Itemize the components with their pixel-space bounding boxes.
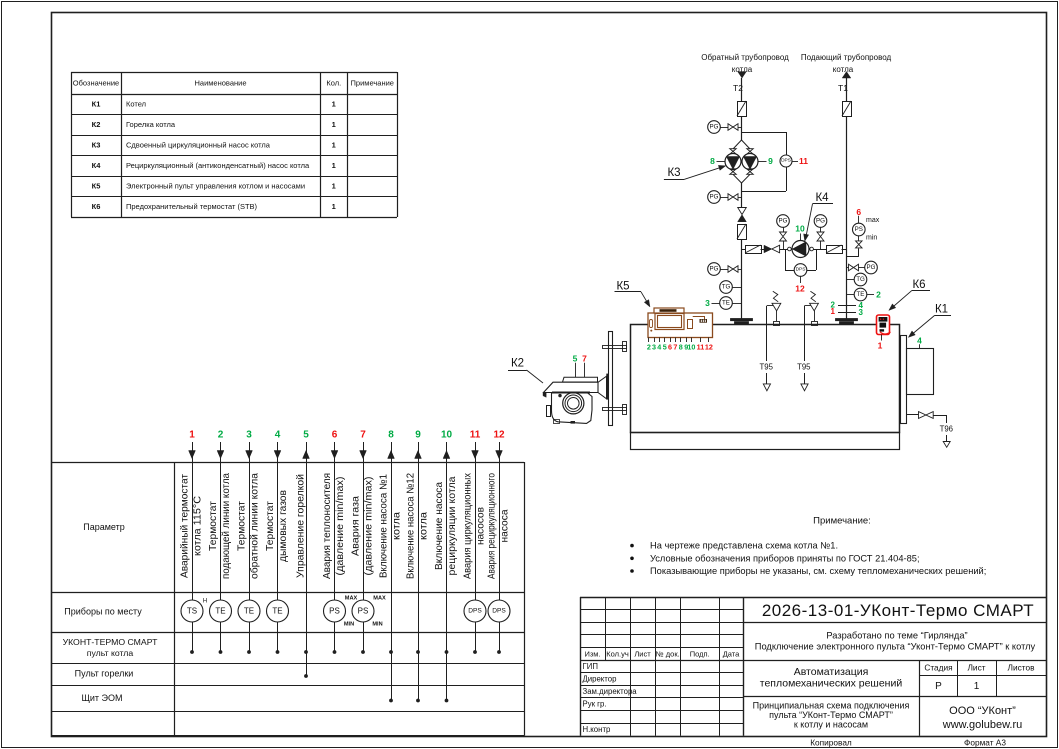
svg-text:11: 11 (697, 343, 705, 352)
svg-text:тепломеханических решений: тепломеханических решений (760, 678, 903, 690)
svg-text:PG: PG (816, 218, 825, 225)
svg-text:Кол.уч: Кол.уч (606, 649, 629, 658)
pump group K3 outlet merge (730, 169, 737, 175)
svg-text:Подключение электронного пульт: Подключение электронного пульта “Уконт-Т… (755, 642, 1036, 652)
svg-text:Термостат: Термостат (265, 501, 276, 551)
svg-text:1: 1 (332, 182, 336, 191)
instrument DPS-12 (488, 600, 510, 622)
svg-text:8: 8 (679, 343, 683, 352)
flow meter supply (843, 102, 852, 117)
svg-text:2: 2 (876, 290, 881, 300)
gauge PG2 with valve (708, 191, 721, 204)
thermostat K6 (877, 315, 890, 335)
component table K1-K6 (71, 72, 397, 74)
svg-text:На чертеже представлена схема: На чертеже представлена схема котла №1. (650, 541, 838, 551)
svg-text:Т95: Т95 (797, 363, 811, 372)
boiler left bolt top (603, 346, 627, 349)
svg-text:К6: К6 (92, 202, 101, 211)
svg-text:3: 3 (246, 430, 252, 441)
svg-text:К5: К5 (616, 281, 629, 293)
svg-text:Т96: Т96 (940, 425, 953, 434)
svg-text:2: 2 (218, 430, 224, 441)
svg-text:Щит ЭОМ: Щит ЭОМ (81, 693, 122, 703)
svg-text:котла: котла (391, 512, 402, 540)
svg-text:6: 6 (332, 430, 338, 441)
svg-text:Авария рециркуляционного: Авария рециркуляционного (486, 473, 497, 579)
svg-text:обратной линии котла: обратной линии котла (248, 473, 260, 579)
gauge PG3 with valve (708, 263, 721, 276)
svg-text:Сдвоенный циркуляционный насос: Сдвоенный циркуляционный насос котла (126, 141, 271, 150)
flow meter K4 inlet (746, 246, 762, 254)
svg-text:7: 7 (673, 343, 677, 352)
gauge DPS K3 (780, 155, 792, 167)
burner K2 details (552, 392, 590, 394)
svg-text:DPS: DPS (796, 267, 806, 273)
svg-text:Наименование: Наименование (195, 79, 247, 88)
svg-text:1: 1 (332, 161, 336, 170)
svg-text:К3: К3 (667, 167, 680, 179)
svg-text:К4: К4 (815, 192, 829, 204)
gauge PG5 with valve (814, 215, 827, 228)
svg-text:1: 1 (332, 120, 336, 129)
flow meter return 2 (738, 225, 747, 240)
svg-text:Дата: Дата (723, 649, 740, 658)
svg-text:К2: К2 (92, 120, 101, 129)
svg-text:Рук гр.: Рук гр. (583, 700, 607, 709)
svg-text:К6: К6 (912, 279, 925, 291)
svg-text:12: 12 (705, 343, 713, 352)
svg-text:DPS: DPS (468, 608, 482, 615)
supply pipe main (846, 116, 848, 319)
svg-text:дымовых газов: дымовых газов (278, 490, 289, 562)
svg-text:3: 3 (652, 343, 656, 352)
svg-text:TE: TE (244, 607, 254, 616)
burner K2 fan circles (563, 393, 584, 414)
svg-text:MIN: MIN (344, 622, 354, 628)
panel K5 terminal block icon (700, 319, 708, 323)
svg-text:Разработано по теме “Гирлянда”: Разработано по теме “Гирлянда” (826, 631, 967, 641)
pump group K3 inlet split (733, 140, 742, 149)
svg-text:Подающий трубопровод: Подающий трубопровод (801, 53, 892, 62)
wire return to junction (741, 116, 743, 140)
svg-text:Изм.: Изм. (584, 649, 600, 658)
svg-text:Т95: Т95 (759, 363, 773, 372)
svg-text:Автоматизация: Автоматизация (794, 666, 869, 678)
svg-text:котла 115°С: котла 115°С (192, 496, 203, 556)
svg-text:насоса: насоса (499, 509, 510, 542)
svg-text:TE: TE (272, 607, 282, 616)
supply pipe base flange (836, 319, 858, 321)
svg-text:ГИП: ГИП (583, 662, 598, 671)
svg-text:2026-13-01-УКонт-Термо СМАРТ: 2026-13-01-УКонт-Термо СМАРТ (762, 601, 1034, 620)
svg-text:пульт котла: пульт котла (87, 648, 134, 658)
svg-text:PG: PG (710, 266, 719, 273)
instrument TE-2 (210, 600, 232, 622)
svg-text:6: 6 (856, 207, 861, 217)
svg-text:4: 4 (275, 430, 281, 441)
svg-text:Н.контр: Н.контр (583, 725, 612, 734)
panel K5 body (648, 313, 713, 338)
svg-text:max: max (866, 217, 880, 224)
svg-text:Подп.: Подп. (690, 649, 710, 658)
flue box (907, 349, 934, 395)
svg-text:4: 4 (657, 343, 661, 352)
svg-text:Показывающие приборы не указан: Показывающие приборы не указаны, см. схе… (650, 566, 986, 576)
svg-text:10: 10 (687, 343, 695, 352)
flow meter return (738, 102, 747, 117)
svg-text:Включение насоса №1: Включение насоса №1 (378, 474, 389, 578)
title block (580, 597, 582, 736)
svg-text:Обратный трубопровод: Обратный трубопровод (701, 53, 789, 62)
svg-text:9: 9 (415, 430, 421, 441)
gauge TE2 (854, 288, 867, 301)
svg-text:4: 4 (917, 336, 922, 346)
svg-text:TE: TE (215, 607, 225, 616)
svg-text:MAX: MAX (373, 596, 386, 602)
supply terminal tick 1 (838, 305, 856, 307)
svg-text:1: 1 (332, 100, 336, 109)
label 2 right (867, 294, 874, 296)
svg-text:Листов: Листов (1008, 663, 1036, 673)
DPS K4 bypass (785, 249, 787, 270)
svg-text:PS: PS (358, 607, 369, 616)
svg-text:Авария газа: Авария газа (350, 496, 361, 556)
svg-text:Котел: Котел (126, 100, 146, 109)
instrument DPS-11 (464, 600, 486, 622)
svg-text:(давление min/max): (давление min/max) (363, 477, 374, 576)
return pipe flow arrow (738, 72, 747, 78)
svg-text:УКОНТ-ТЕРМО СМАРТ: УКОНТ-ТЕРМО СМАРТ (63, 637, 159, 647)
flow meter K4 outlet (827, 246, 843, 254)
svg-text:PG: PG (710, 124, 719, 131)
svg-text:7: 7 (582, 354, 587, 364)
svg-text:5: 5 (663, 343, 667, 352)
burner K2 top bar (563, 377, 598, 382)
svg-text:PS: PS (329, 607, 340, 616)
svg-text:Примечание:: Примечание: (813, 516, 871, 527)
svg-text:TE: TE (857, 291, 865, 298)
svg-text:min: min (866, 235, 877, 242)
svg-text:Кол.: Кол. (326, 79, 341, 88)
svg-text:Стадия: Стадия (924, 663, 952, 673)
svg-text:Пульт горелки: Пульт горелки (75, 669, 134, 679)
svg-text:12: 12 (493, 430, 505, 441)
svg-text:Термостат: Термостат (236, 501, 247, 551)
safety valve 2 drain (805, 305, 811, 307)
svg-text:К1: К1 (935, 304, 948, 316)
pump K3 right (742, 154, 758, 170)
gauge PG1 with valve (708, 121, 721, 134)
signal connection table (51, 462, 524, 464)
wire return top (741, 78, 743, 101)
svg-text:1: 1 (878, 341, 883, 351)
supply terminal tick 2 (838, 312, 856, 314)
svg-text:котла: котла (833, 65, 854, 74)
panel K5 terminals (648, 338, 650, 343)
boiler K1 body (631, 325, 900, 433)
panel K5 top bezel (654, 308, 684, 313)
panel K5 left button (650, 320, 653, 328)
svg-text:3: 3 (705, 298, 710, 308)
gauge PG6 with valve (847, 267, 849, 269)
pump K3 left (725, 154, 741, 170)
svg-text:Авария циркуляционных: Авария циркуляционных (462, 473, 473, 579)
gauge TG2 (854, 273, 867, 286)
supply pipe flow arrow (842, 72, 851, 78)
instrument TS-1 (181, 600, 203, 622)
wire to DPS branch (742, 132, 787, 134)
svg-text:Р: Р (935, 681, 942, 692)
wire return lower (741, 239, 743, 319)
svg-text:1: 1 (831, 307, 836, 316)
svg-text:котла: котла (418, 512, 429, 540)
boiler K1 base (631, 433, 900, 450)
instrument TE-4 (267, 600, 289, 622)
svg-text:Рециркуляционный (антиконденса: Рециркуляционный (антиконденсатный) насо… (126, 161, 310, 170)
svg-text:подающей линии котла: подающей линии котла (221, 473, 232, 579)
burner K2 fan housing (552, 393, 593, 424)
wire return mid (741, 183, 743, 208)
instrument PS-7 (352, 600, 374, 622)
drain arrow T96 (943, 442, 950, 448)
svg-text:TG: TG (856, 276, 865, 283)
svg-text:DPS: DPS (492, 608, 506, 615)
panel K5 right connector (688, 320, 693, 329)
svg-text:5: 5 (303, 430, 309, 441)
burner K2 cone (598, 376, 607, 399)
svg-text:Термостат: Термостат (208, 501, 219, 551)
svg-text:К2: К2 (511, 358, 524, 370)
svg-text:Копировал: Копировал (810, 738, 852, 748)
safety valve 1 (774, 322, 780, 326)
svg-text:MIN: MIN (372, 622, 382, 628)
svg-text:Лист: Лист (634, 649, 651, 658)
burner K2 side box (547, 406, 551, 417)
svg-text:насосов: насосов (475, 507, 486, 545)
gauge TG1 (720, 281, 733, 294)
svg-text:TS: TS (187, 607, 197, 616)
svg-text:Зам.директора: Зам.директора (583, 687, 638, 696)
burner K2 body bar (544, 382, 599, 392)
svg-text:2: 2 (647, 343, 651, 352)
instrument TE-3 (238, 600, 260, 622)
instrument PS-6 (324, 600, 346, 622)
safety valve 1 drain (767, 305, 773, 307)
svg-text:Приборы по месту: Приборы по месту (64, 607, 142, 617)
svg-text:Обозначение: Обозначение (73, 79, 119, 88)
svg-text:Аварийный термостат: Аварийный термостат (179, 474, 190, 578)
svg-text:7: 7 (360, 430, 366, 441)
svg-text:10: 10 (441, 430, 453, 441)
svg-text:Лист: Лист (967, 663, 985, 673)
drain valve T96 (906, 414, 919, 416)
panel K5 screen (655, 314, 684, 330)
svg-text:Условные обозначения приборов: Условные обозначения приборов приняты по… (650, 553, 920, 563)
svg-text:PG: PG (867, 264, 876, 271)
pressure switch PS branch (847, 256, 859, 258)
svg-text:PG: PG (710, 194, 719, 201)
svg-text:(давление min/max): (давление min/max) (335, 477, 346, 576)
pump K4 (788, 247, 792, 251)
svg-text:Предохранительный термостат (S: Предохранительный термостат (STB) (126, 202, 258, 211)
svg-text:К3: К3 (92, 141, 101, 150)
svg-text:1: 1 (974, 681, 980, 692)
svg-text:ООО “УКонт”: ООО “УКонт” (949, 705, 1016, 717)
svg-text:TE: TE (722, 300, 730, 307)
svg-text:Н: Н (203, 597, 207, 604)
svg-text:PG: PG (779, 218, 788, 225)
wire supply top (846, 78, 848, 101)
check valve return (738, 208, 747, 215)
svg-text:10: 10 (795, 224, 805, 234)
svg-text:Управление горелкой: Управление горелкой (296, 474, 307, 578)
check valve K4 (764, 245, 772, 253)
svg-text:рециркуляции котла: рециркуляции котла (447, 476, 458, 575)
svg-text:11: 11 (799, 156, 808, 166)
wire K4 outlet (813, 249, 826, 251)
svg-text:Авария теплоносителя: Авария теплоносителя (322, 473, 333, 579)
svg-text:PS: PS (855, 226, 863, 233)
svg-text:8: 8 (710, 156, 715, 166)
svg-text:9: 9 (768, 156, 773, 166)
svg-text:1: 1 (332, 202, 336, 211)
svg-text:5: 5 (573, 354, 578, 364)
svg-text:К1: К1 (92, 100, 101, 109)
svg-text:11: 11 (470, 430, 481, 441)
svg-text:Параметр: Параметр (83, 522, 125, 532)
svg-text:К5: К5 (92, 182, 101, 191)
svg-text:Примечание: Примечание (351, 79, 394, 88)
svg-text:12: 12 (795, 284, 805, 294)
svg-text:DPS: DPS (781, 158, 791, 164)
svg-text:MAX: MAX (345, 596, 358, 602)
svg-text:6: 6 (668, 343, 672, 352)
svg-text:3: 3 (859, 308, 864, 317)
recirculation line (742, 249, 746, 251)
gauge PG4 with valve (777, 215, 790, 228)
svg-text:www.golubew.ru: www.golubew.ru (942, 719, 1023, 731)
svg-text:к котлу и насосам: к котлу и насосам (794, 720, 868, 730)
safety valve 2 (812, 322, 818, 326)
gauge TE1 (720, 297, 733, 310)
svg-text:8: 8 (388, 430, 394, 441)
drain arrow T95-2 (801, 384, 808, 391)
svg-text:К4: К4 (92, 161, 102, 170)
thermostat K6 stub (881, 335, 883, 341)
svg-text:Горелка котла: Горелка котла (126, 120, 176, 129)
boiler left plate (609, 332, 613, 426)
svg-text:пульта “УКонт-Термо СМАРТ”: пульта “УКонт-Термо СМАРТ” (769, 710, 893, 720)
svg-text:Электронный пульт управления к: Электронный пульт управления котлом и на… (126, 182, 305, 191)
svg-text:Принципиальная схема подключен: Принципиальная схема подключения (753, 701, 910, 711)
svg-text:1: 1 (332, 141, 336, 150)
svg-text:№ док.: № док. (656, 649, 680, 658)
drain arrow T95-1 (763, 384, 770, 391)
boiler left bolt bottom (603, 408, 627, 411)
svg-text:Формат А3: Формат А3 (964, 738, 1006, 748)
svg-text:Директор: Директор (583, 675, 618, 684)
svg-text:1: 1 (189, 430, 195, 441)
svg-text:Включение насоса: Включение насоса (434, 482, 445, 570)
svg-text:Включение насоса №12: Включение насоса №12 (405, 473, 416, 579)
boiler right plate (901, 336, 907, 424)
svg-text:TG: TG (722, 284, 731, 291)
return pipe base flange (731, 319, 753, 321)
wire DPS to pipe (786, 167, 788, 191)
